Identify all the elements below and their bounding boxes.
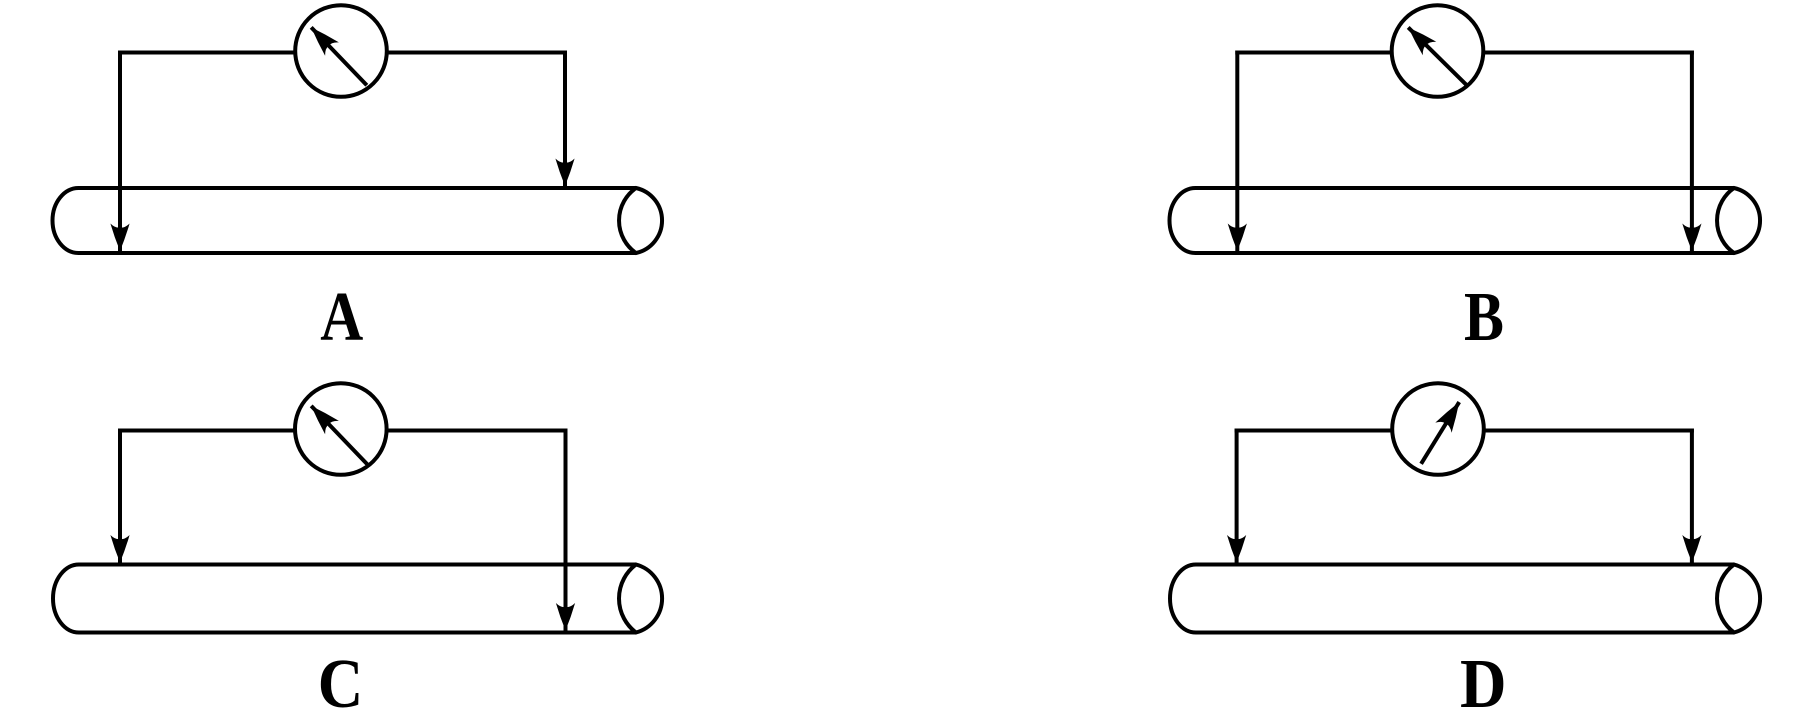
contact arrow: B left probe tip	[1228, 224, 1247, 252]
conductor rod (cylinder), diagram D	[1170, 565, 1760, 633]
conductor rod (cylinder), diagram C	[53, 565, 662, 633]
wire: C left vertical probe lead	[118, 429, 122, 563]
meter needle, diagram A	[311, 27, 367, 85]
contact arrow: C left probe tip	[110, 535, 129, 563]
meter (galvanometer), diagram A	[295, 5, 387, 97]
wire: C top-left horizontal lead	[118, 429, 341, 433]
wire: A top-right horizontal lead	[341, 51, 567, 55]
svg-text:A: A	[320, 279, 363, 356]
svg-text:C: C	[318, 646, 364, 722]
conductor rod (cylinder), diagram A	[53, 188, 663, 253]
wire: D top-right horizontal lead	[1438, 429, 1694, 433]
meter (galvanometer), diagram B	[1392, 5, 1484, 97]
contact arrow: D right probe tip	[1682, 535, 1701, 563]
wire: A top-left horizontal lead	[118, 51, 341, 55]
svg-text:D: D	[1460, 646, 1507, 722]
svg-text:B: B	[1464, 279, 1504, 356]
meter needle, diagram C	[311, 406, 367, 465]
contact arrow: A right probe tip	[555, 159, 574, 187]
meter (galvanometer), diagram D	[1392, 383, 1484, 475]
contact arrow: B right probe tip	[1682, 224, 1701, 252]
conductor rod (cylinder), diagram B	[1170, 188, 1761, 253]
wire: A right vertical probe lead	[563, 51, 567, 187]
wire: D right vertical probe lead	[1690, 429, 1694, 563]
contact arrow: D left probe tip	[1227, 535, 1246, 563]
wire: B top-left horizontal lead	[1235, 51, 1437, 55]
meter needle, diagram B	[1408, 27, 1466, 84]
wire: B top-right horizontal lead	[1438, 51, 1694, 55]
contact arrow: C right probe tip	[556, 603, 575, 631]
wire: C right vertical probe lead	[564, 429, 568, 631]
meter (galvanometer), diagram C	[295, 383, 387, 475]
meter needle, diagram D	[1421, 402, 1459, 464]
contact arrow: A left probe tip	[110, 224, 129, 252]
wire: D left vertical probe lead	[1235, 429, 1239, 563]
wire: B right vertical probe lead	[1690, 51, 1694, 252]
wire: A left vertical probe lead	[118, 51, 122, 252]
wire: C top-right horizontal lead	[341, 429, 568, 433]
wire: D top-left horizontal lead	[1235, 429, 1438, 433]
wire: B left vertical probe lead	[1235, 51, 1239, 252]
